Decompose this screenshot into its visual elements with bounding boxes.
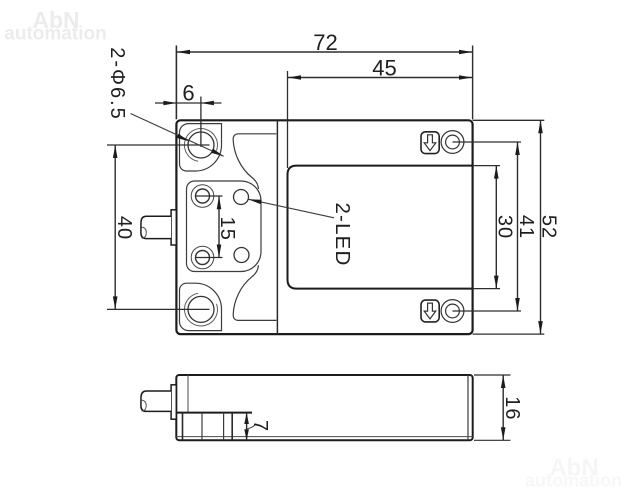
connector flange top view [171,210,176,245]
leader 2-phi6.5 [131,114,224,157]
side view foot line a [182,413,184,441]
ringed hole upper [191,185,214,208]
ext body top right [473,119,545,121]
svg-text:52: 52 [538,215,560,239]
svg-text:72: 72 [313,30,337,55]
dim 15 tick lower [196,257,223,259]
ext panel top [473,165,500,167]
svg-text:41: 41 [515,215,537,239]
side view step line [176,412,252,414]
LED hole lower [234,248,249,263]
ext screw circle upper [453,141,522,143]
counterbore bottom-left [184,293,217,326]
mounting hole top-left [188,132,214,158]
side view foot line b [201,413,203,441]
counterbore top-left [184,129,217,162]
side view connector cylinder [141,391,171,411]
svg-text:2-Φ6.5: 2-Φ6.5 [106,47,128,121]
boss swoosh upper [233,134,276,189]
ext screw circle lower [453,310,522,312]
side view connector flange [171,385,176,419]
svg-text:7: 7 [249,420,271,431]
connector end ellipse top view [141,227,146,238]
LED hole upper [234,190,249,205]
screw slot upper [421,132,439,154]
dim 7 line [244,413,256,441]
leader 2-LED [249,199,335,218]
side view left vertical [187,375,189,413]
side view connector end ellipse [141,400,146,411]
dim 40 ext top [107,144,210,146]
screw slot lower [421,300,439,322]
ext panel bottom [473,288,500,290]
extension line body left top [175,46,177,120]
svg-text:45: 45 [372,55,396,80]
side view foot line c [223,413,225,441]
dim 30 line [494,166,499,289]
svg-text:automation: automation [4,24,106,45]
dim 15 tick upper [196,195,223,197]
side view inner right line [467,375,469,440]
ext body bottom right [473,333,545,335]
pocket bottom-left [180,283,222,330]
side view inner bottom line [176,436,472,438]
screw circle lower [441,300,464,323]
mounting hole bottom-left [188,296,214,322]
connector cylinder top view [141,216,171,238]
extension line 45 left [287,71,289,168]
pocket top-left [180,124,222,171]
dim 72 line [176,50,472,55]
extension line 6 right [200,97,202,147]
screw circle upper [441,131,464,154]
watermark top-left AbN [4,7,106,45]
dim 41 line [515,142,520,311]
dim 45 line [288,75,473,80]
dim 16 ext top [474,374,511,376]
svg-text:30: 30 [493,215,515,239]
boss swoosh lower [233,265,276,320]
dim 52 line [538,120,543,334]
ringed hole lower [191,246,214,269]
extension line body right top [472,46,474,120]
pocket middle-left [187,181,262,272]
svg-text:6: 6 [182,80,194,105]
svg-text:15: 15 [216,217,238,241]
svg-text:2-LED: 2-LED [331,202,354,266]
side view foot line d [231,413,233,441]
svg-text:automation: automation [525,471,622,491]
dim 15 line [217,196,222,258]
dim 6 line [155,101,222,106]
top view body outline [176,120,472,334]
svg-text:40: 40 [113,216,135,240]
svg-text:16: 16 [501,396,523,420]
sensing face panel [288,166,473,289]
dim 16 line [501,375,506,440]
side view body [176,375,472,440]
watermark bottom-right AbN [525,455,622,491]
dim 40 ext bottom [107,308,210,310]
dim 16 ext bottom [474,439,511,441]
step edge line [276,120,278,334]
dim 40 line [113,145,118,309]
